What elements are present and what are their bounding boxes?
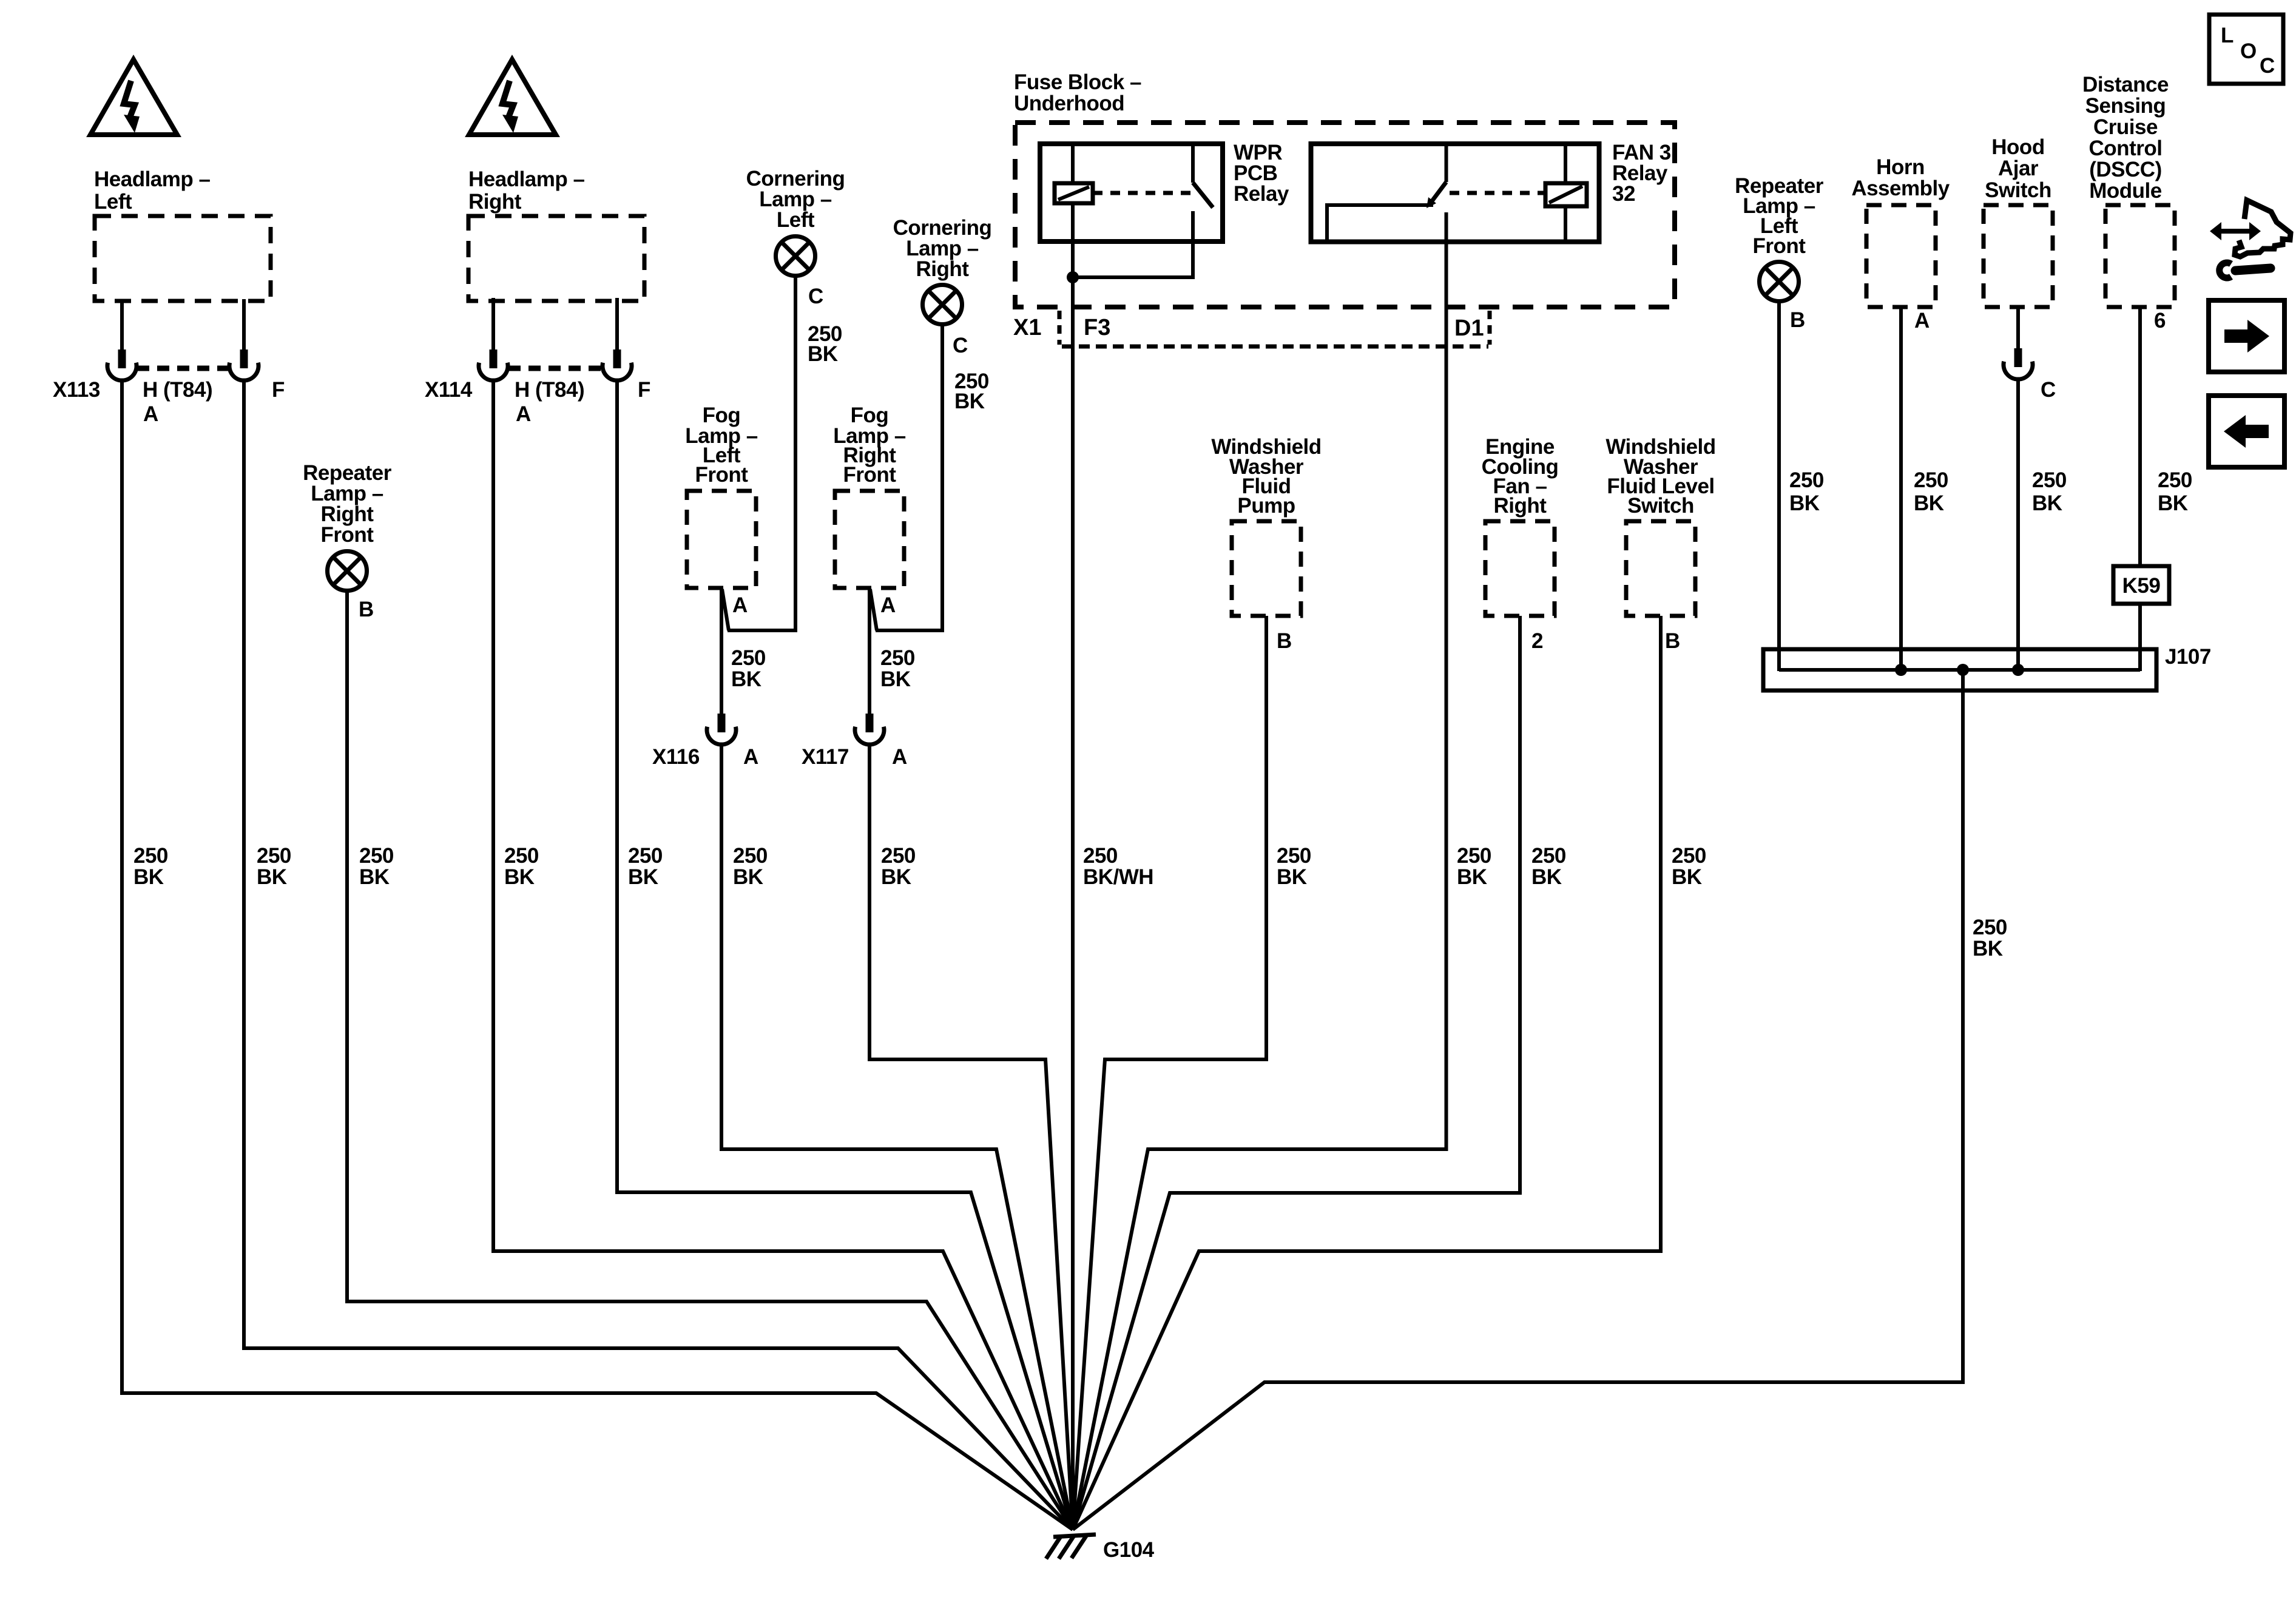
wire: horn assembly to J107 (1899, 306, 1903, 671)
svg-text:BK: BK (731, 667, 761, 691)
wire: washer pump B to G104 (1073, 616, 1266, 1530)
wire: K59 to J107 (2138, 604, 2142, 671)
wire: J107 output to G104 (1073, 670, 1963, 1530)
svg-text:X114: X114 (425, 378, 473, 402)
svg-text:BK: BK (504, 865, 535, 889)
svg-text:250: 250 (504, 844, 539, 868)
svg-text:BK: BK (257, 865, 287, 889)
svg-text:BK/WH: BK/WH (1083, 865, 1153, 889)
svg-text:Left: Left (94, 190, 132, 214)
lamp: Cornering Lamp - Right (893, 216, 992, 413)
svg-text:250: 250 (628, 844, 663, 868)
svg-text:Cruise: Cruise (2093, 115, 2158, 139)
svg-text:250: 250 (733, 844, 768, 868)
svg-text:BK: BK (1914, 491, 1944, 515)
lamp: Repeater Lamp - Right Front (303, 461, 392, 621)
svg-text:B: B (1790, 308, 1805, 332)
WPR relay switch common (1191, 144, 1195, 183)
junction dot (output at J107) (1957, 664, 1969, 676)
connector X114 body (dashed) (508, 366, 603, 371)
wire: headlamp left terminal H stub (120, 299, 124, 349)
svg-text:B: B (359, 598, 374, 621)
lamp: Cornering Lamp - Left (746, 167, 845, 366)
wire: repeater lamp right front to G104 (347, 591, 1073, 1530)
svg-text:C: C (953, 334, 968, 357)
wire: washer fluid level switch B to G104 (1073, 616, 1661, 1530)
svg-text:Hood: Hood (1991, 135, 2044, 159)
junction dot F3 node (1067, 271, 1079, 283)
svg-text:D1: D1 (1454, 316, 1484, 341)
wire: headlamp right terminal H stub (491, 298, 495, 349)
svg-text:B: B (1665, 629, 1680, 653)
svg-text:F: F (272, 378, 285, 402)
svg-text:BK: BK (954, 390, 985, 413)
connector X1 row bottom line (dashed) (1062, 345, 1488, 349)
svg-text:250: 250 (2158, 468, 2192, 492)
LOC box (2209, 15, 2283, 84)
svg-text:Underhood: Underhood (1014, 92, 1124, 115)
svg-text:C: C (2041, 378, 2056, 402)
warning triangle (left) (90, 59, 177, 135)
WPR relay switch output wire (1073, 211, 1193, 277)
svg-text:Control: Control (2089, 137, 2163, 160)
svg-text:C: C (808, 285, 823, 308)
svg-text:Front: Front (843, 463, 897, 487)
connector X117 (855, 714, 884, 744)
wire: DSCC module to K59 (2138, 306, 2142, 566)
svg-text:250: 250 (1789, 468, 1824, 492)
svg-text:L: L (2221, 24, 2234, 47)
svg-text:BK: BK (880, 667, 911, 691)
FAN3 relay switch blade (1431, 182, 1447, 203)
wire: fuse block D1 to G104 (1073, 212, 1447, 1530)
svg-text:Front: Front (321, 523, 374, 547)
wire: X117 to G104 (869, 745, 1073, 1530)
component box: Fog Lamp - Left Front (685, 403, 758, 617)
svg-text:X113: X113 (53, 378, 100, 402)
svg-text:A: A (1914, 309, 1930, 333)
FAN3 relay blade arrowhead (1427, 197, 1436, 208)
connector X113 terminal H (107, 349, 137, 380)
svg-text:250: 250 (881, 844, 916, 868)
svg-text:250: 250 (2032, 468, 2067, 492)
svg-text:32: 32 (1612, 182, 1635, 206)
wire: engine cooling fan 2 to G104 (1073, 616, 1520, 1530)
svg-text:X116: X116 (652, 745, 700, 769)
svg-text:C: C (2260, 54, 2275, 78)
svg-text:BK: BK (2158, 491, 2188, 515)
svg-text:Pump: Pump (1237, 494, 1295, 518)
svg-text:BK: BK (1457, 865, 1487, 889)
svg-text:Headlamp –: Headlamp – (468, 167, 584, 191)
wire: hood ajar connector to J107 (2016, 380, 2020, 671)
svg-text:A: A (892, 745, 907, 769)
svg-text:250: 250 (257, 844, 291, 868)
svg-text:A: A (143, 402, 158, 426)
hood-open icon with double arrow (2210, 200, 2291, 257)
svg-text:Module: Module (2089, 179, 2162, 203)
svg-text:H (T84): H (T84) (515, 378, 584, 402)
svg-text:BK: BK (1789, 491, 1820, 515)
component box: Hood Ajar Switch (1984, 135, 2053, 307)
svg-text:2: 2 (1531, 629, 1543, 653)
svg-text:Ajar: Ajar (1998, 157, 2039, 180)
svg-text:BK: BK (1973, 937, 2003, 960)
svg-text:250: 250 (359, 844, 394, 868)
wire: X114-A to G104 (493, 382, 1073, 1530)
svg-text:BK: BK (1672, 865, 1702, 889)
WPR relay actuation line (dashed) (1093, 191, 1192, 195)
svg-text:H (T84): H (T84) (143, 378, 212, 402)
wire: fog lamp left pin A branch to cornering junction (722, 589, 729, 630)
WPR relay coil feed wire (1071, 144, 1075, 277)
svg-text:A: A (880, 593, 896, 617)
wire: headlamp left terminal F stub (242, 299, 246, 349)
svg-text:Left: Left (777, 208, 815, 232)
svg-text:Right: Right (1494, 494, 1547, 518)
svg-text:250: 250 (1914, 468, 1948, 492)
connector D1 vertical dash (1488, 311, 1492, 345)
previous-page arrow box (left) (2209, 396, 2284, 467)
svg-text:Distance: Distance (2082, 73, 2169, 96)
wire: fog lamp right pin A down to X117 (868, 588, 871, 714)
connector X114 terminal H (479, 349, 508, 380)
svg-text:Front: Front (695, 463, 749, 487)
wire: fog lamp left pin A down to X116 (720, 588, 723, 714)
connector C (hood ajar) (2004, 348, 2033, 379)
svg-text:X117: X117 (802, 745, 849, 769)
relay FAN 3 Relay 32 box (1311, 144, 1599, 242)
component box: Fog Lamp - Right Front (833, 403, 906, 617)
FAN3 relay actuation line (dashed) (1450, 191, 1544, 195)
svg-text:250: 250 (1531, 844, 1566, 868)
svg-text:250: 250 (1672, 844, 1706, 868)
svg-text:J107: J107 (2165, 645, 2211, 669)
wrench icon (2220, 263, 2271, 278)
svg-text:250: 250 (133, 844, 168, 868)
svg-text:Assembly: Assembly (1851, 177, 1950, 200)
svg-text:A: A (743, 745, 758, 769)
svg-text:BK: BK (1531, 865, 1562, 889)
svg-text:X1: X1 (1013, 315, 1041, 340)
svg-text:Right: Right (468, 190, 522, 214)
FAN3 relay switch common (1445, 144, 1448, 182)
wire: cornering lamp left to fog lamp junction (728, 276, 795, 631)
svg-text:250: 250 (1083, 844, 1118, 868)
svg-text:Fuse Block –: Fuse Block – (1014, 70, 1141, 94)
svg-text:F3: F3 (1084, 315, 1110, 340)
wire: X116 to G104 (721, 745, 1073, 1530)
component box: Horn Assembly (1851, 155, 1950, 333)
component box: Engine Cooling Fan - Right (1482, 435, 1559, 653)
FAN3 relay coil (1545, 183, 1587, 206)
component box: Headlamp - Left (94, 167, 271, 301)
splice pack J107 (1763, 645, 2211, 690)
svg-text:F: F (638, 378, 650, 402)
wire: X113-A to G104 (122, 382, 1073, 1530)
svg-text:Right: Right (916, 257, 970, 281)
svg-text:6: 6 (2154, 309, 2166, 333)
FAN3 relay coil feed wire (1564, 144, 1567, 241)
wire: repeater lamp left front to J107 (1777, 301, 1781, 671)
component box: Windshield Washer Fluid Level Switch (1606, 435, 1715, 653)
junction dot (hood at J107) (2012, 664, 2024, 676)
svg-text:250: 250 (1973, 916, 2007, 939)
in-line component K59 (2113, 566, 2169, 604)
wire: fog lamp right pin A branch to cornering junction (870, 589, 877, 630)
component box: Windshield Washer Fluid Pump (1211, 435, 1321, 653)
svg-text:B: B (1277, 629, 1292, 653)
wire: X114-F to G104 (617, 382, 1073, 1530)
svg-text:250: 250 (731, 646, 766, 670)
svg-text:Sensing: Sensing (2085, 94, 2166, 118)
connector X113 terminal F (229, 349, 258, 380)
svg-text:BK: BK (359, 865, 390, 889)
lamp: Repeater Lamp - Left Front (1735, 174, 1824, 332)
svg-text:BK: BK (881, 865, 911, 889)
svg-text:250: 250 (880, 646, 915, 670)
svg-text:G104: G104 (1103, 1538, 1155, 1562)
svg-text:O: O (2240, 39, 2257, 63)
svg-text:Horn: Horn (1876, 155, 1925, 179)
wire: headlamp right terminal F stub (615, 298, 619, 349)
svg-text:A: A (732, 593, 748, 617)
svg-text:BK: BK (2032, 491, 2062, 515)
svg-text:Headlamp –: Headlamp – (94, 167, 210, 191)
WPR relay switch blade (1193, 183, 1213, 208)
Fuse Block - Underhood outline (dashed) (1014, 70, 1675, 307)
component box: DSCC Module (2082, 73, 2175, 333)
connector X113 body (dashed) (137, 366, 229, 371)
WPR relay coil (1055, 183, 1093, 203)
svg-text:250: 250 (1457, 844, 1491, 868)
wire: hood ajar switch stub (2016, 306, 2020, 348)
svg-text:(DSCC): (DSCC) (2089, 158, 2161, 181)
junction dot (horn at J107) (1895, 664, 1907, 676)
next-page arrow box (right) (2209, 300, 2284, 372)
svg-text:BK: BK (1277, 865, 1307, 889)
connector X116 (707, 714, 736, 744)
svg-text:BK: BK (628, 865, 658, 889)
svg-text:Front: Front (1753, 234, 1806, 258)
svg-text:Switch: Switch (1627, 494, 1694, 518)
connector X114 terminal F (603, 349, 632, 380)
FAN3 relay NO contact wire (1327, 205, 1433, 241)
warning triangle (right) (469, 59, 556, 135)
relay K (WPR PCB Relay) box (1040, 144, 1223, 241)
ground G104 (1046, 1534, 1155, 1562)
svg-text:250: 250 (1277, 844, 1311, 868)
wire: cornering lamp right to fog lamp junction (876, 325, 942, 631)
component box: Headlamp - Right (468, 167, 644, 301)
svg-text:K59: K59 (2122, 574, 2161, 598)
svg-text:Switch: Switch (1985, 178, 2051, 202)
svg-text:Relay: Relay (1234, 182, 1289, 206)
svg-text:BK: BK (808, 342, 838, 366)
wire: X113-F to G104 (244, 382, 1073, 1530)
svg-text:BK: BK (733, 865, 763, 889)
svg-text:BK: BK (133, 865, 164, 889)
connector X1 row vertical dash (1058, 311, 1062, 345)
svg-text:A: A (516, 402, 531, 426)
wire: fuse block F3 to G104 (1071, 277, 1075, 1530)
